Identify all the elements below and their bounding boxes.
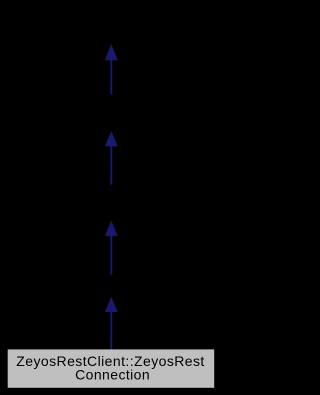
arrow 4 — [105, 297, 118, 350]
node box: ZeyosRestClient::ZeyosRestConnection (current class, grey fill) — [8, 349, 215, 387]
arrow 2 — [105, 131, 118, 185]
svg-text:Connection: Connection — [75, 366, 149, 382]
arrow 3 — [105, 221, 118, 275]
arrow 1 (top inheritance edge) — [105, 44, 118, 95]
inheritance graph: ZeyosRestClient::ZeyosRestConnection — [0, 0, 223, 395]
